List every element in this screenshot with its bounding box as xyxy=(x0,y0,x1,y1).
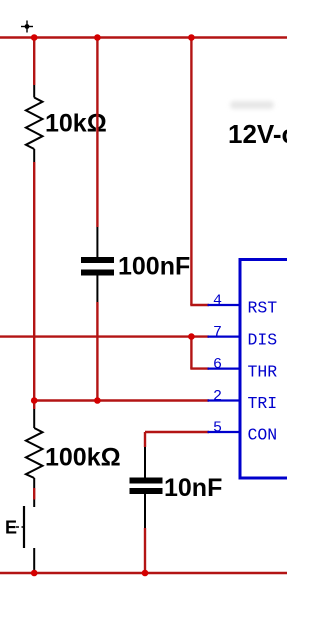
wire RST horizontal xyxy=(190,304,209,306)
capacitor C1 100nF bottom lead xyxy=(96,276,98,303)
node TRI-left xyxy=(31,397,38,404)
svg-text:100kΩ: 100kΩ xyxy=(45,444,121,472)
switch S1 upper contact xyxy=(33,500,35,508)
svg-text:CON: CON xyxy=(248,426,278,445)
capacitor C1 100nF top lead xyxy=(96,227,98,257)
node rail-RST xyxy=(188,34,195,41)
wire DIS horizontal xyxy=(0,335,209,337)
node rail-C1 xyxy=(94,34,101,41)
node + marker top-left xyxy=(21,21,33,33)
node rail-R1 xyxy=(31,34,38,41)
svg-text:THR: THR xyxy=(248,362,278,381)
wire left vertical upper (rail to R1) xyxy=(33,38,35,86)
pin 2 stub xyxy=(208,399,241,401)
resistor R2 100k zigzag xyxy=(26,428,43,478)
pin 4 stub xyxy=(208,304,241,306)
wire DIS to THR vertical xyxy=(190,337,192,369)
resistor R1 10k top lead xyxy=(33,85,35,98)
wire C1 to TRI line xyxy=(96,302,98,401)
svg-text:2: 2 xyxy=(213,388,222,405)
capacitor C2 10nF bottom lead xyxy=(144,494,146,528)
svg-text:12V-o: 12V-o xyxy=(228,119,287,149)
switch S1 lower contact xyxy=(33,548,35,571)
svg-text:E: E xyxy=(5,518,17,538)
svg-text:5: 5 xyxy=(213,420,222,437)
svg-text:TRI: TRI xyxy=(248,394,278,413)
wire CON vertical down xyxy=(144,432,146,447)
wire CON horizontal xyxy=(145,431,209,433)
wire bottom ground rail xyxy=(0,572,287,574)
capacitor C2 10nF top lead xyxy=(144,447,146,478)
op-amp U1 555 body xyxy=(240,260,300,479)
wire VCC to RST vertical xyxy=(190,38,192,306)
capacitor C1 100nF plates xyxy=(81,257,114,263)
node TRI-C1 xyxy=(94,397,101,404)
switch S1 arm bar xyxy=(23,506,25,548)
wire THR horizontal xyxy=(190,367,209,369)
svg-text:6: 6 xyxy=(213,356,222,373)
svg-text:7: 7 xyxy=(213,324,222,341)
svg-text:RST: RST xyxy=(248,299,278,318)
resistor R1 10k bottom lead xyxy=(33,149,35,162)
capacitor C2 10nF plates xyxy=(130,478,163,484)
resistor R2 100k bottom lead xyxy=(33,478,35,488)
wire left vertical middle (R1 to TRI node) xyxy=(33,162,35,409)
wire R2 to switch xyxy=(33,488,35,500)
resistor R2 100k top lead xyxy=(33,409,35,428)
svg-text:DIS: DIS xyxy=(248,330,278,349)
pin 7 stub xyxy=(208,336,241,338)
node gnd-C2 xyxy=(142,570,149,577)
svg-text:100nF: 100nF xyxy=(118,253,190,281)
pin 5 stub xyxy=(208,431,241,433)
pin 6 stub xyxy=(208,368,241,370)
node DIS-THR xyxy=(188,333,195,340)
svg-text:10nF: 10nF xyxy=(164,474,222,502)
wire C2 to ground rail xyxy=(144,528,146,573)
node gnd-switch xyxy=(31,570,38,577)
wire top power rail xyxy=(0,36,287,38)
resistor R1 10k zigzag xyxy=(26,98,43,150)
svg-text:4: 4 xyxy=(213,293,222,310)
wire C1 branch upper (rail down to C1) xyxy=(96,38,98,228)
switch key dashes xyxy=(16,526,24,528)
wire TRI horizontal xyxy=(34,399,209,401)
